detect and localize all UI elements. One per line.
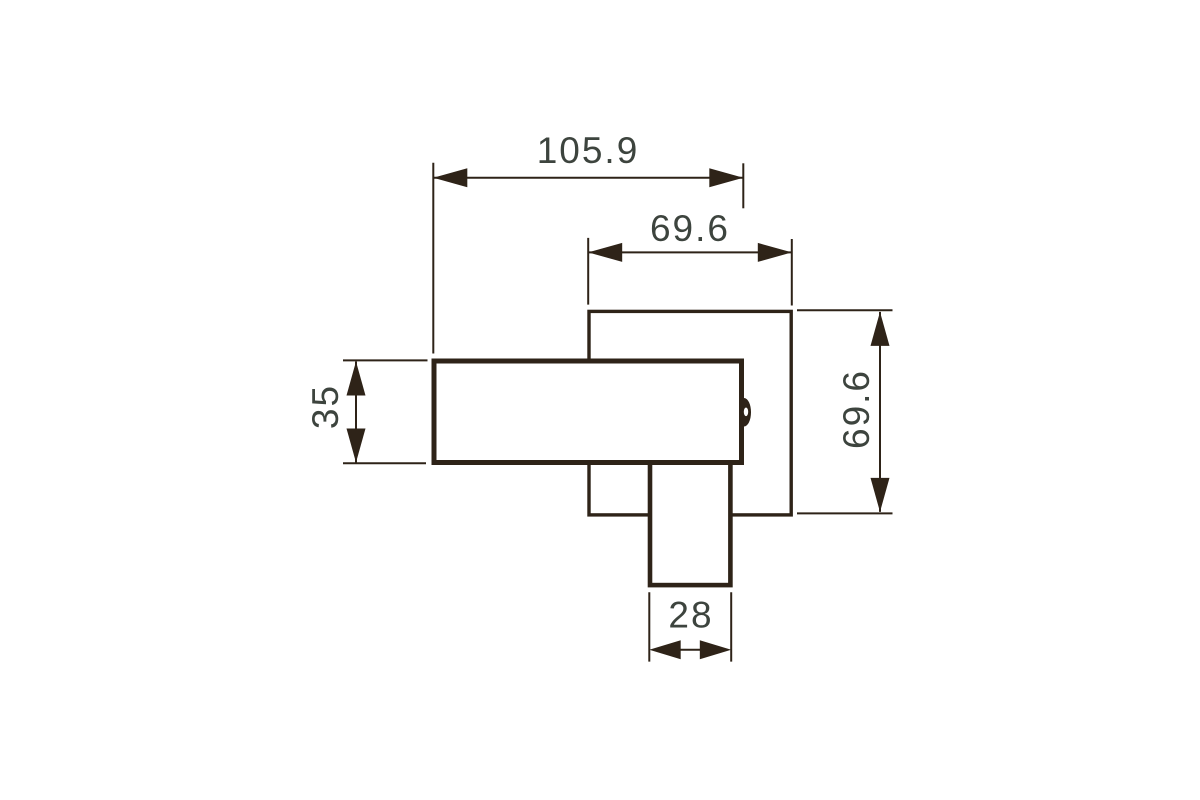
dim 35 extension line top: [343, 359, 428, 361]
dim 105.9 extension line left: [432, 163, 434, 354]
handle neck: [650, 462, 730, 585]
square rose plate: [589, 311, 791, 515]
dim 69.6 top line: [588, 251, 792, 253]
dim 69.6 top extension line left: [587, 238, 589, 305]
dim 35 arrow bottom: [347, 429, 366, 463]
dim 28 extension line left: [648, 592, 650, 661]
svg-text:69.6: 69.6: [836, 369, 877, 449]
svg-text:105.9: 105.9: [537, 130, 640, 171]
dim 105.9 arrow right: [709, 168, 743, 187]
dim 28 arrow right: [700, 640, 731, 659]
dim 35 line: [355, 362, 357, 463]
dim 69.6 right extension line top: [797, 309, 893, 311]
dim 28 extension line right: [730, 592, 732, 661]
dim 69.6 top arrow right: [758, 243, 792, 262]
dim 28 line: [681, 649, 701, 651]
dim 69.6 right arrow top: [871, 312, 890, 346]
dim 105.9 arrow left: [433, 168, 467, 187]
handle lever: [434, 361, 742, 463]
dim 105.9 extension line right: [742, 163, 744, 208]
svg-text:69.6: 69.6: [650, 208, 730, 249]
svg-text:35: 35: [305, 384, 346, 429]
dim 28 arrow left: [649, 640, 680, 659]
dim 69.6 right arrow bottom: [871, 478, 890, 512]
dim 69.6 right line: [879, 312, 881, 512]
dim 69.6 top extension line right: [791, 239, 793, 306]
dim 35 arrow top: [347, 362, 366, 396]
spindle notch: [744, 408, 748, 417]
dim 69.6 top arrow left: [588, 243, 622, 262]
svg-text:28: 28: [668, 595, 713, 636]
dim 69.6 right extension line bottom: [797, 512, 893, 514]
spindle bump on lever end: [742, 398, 752, 427]
dim 105.9 line: [433, 177, 743, 179]
dim 35 extension line bottom: [343, 462, 426, 464]
